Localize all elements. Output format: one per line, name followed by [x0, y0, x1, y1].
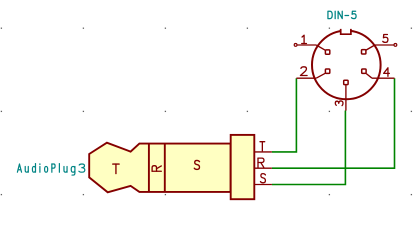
label S inside sleeve section	[194, 160, 199, 169]
DIN pin 5	[362, 44, 397, 55]
DIN pin 1 number	[302, 35, 307, 43]
pin S name	[260, 174, 265, 183]
connector AudioPlug3 tip and barrel outline	[89, 143, 230, 193]
grid dots (decorative)	[1, 28, 412, 196]
pin R name	[258, 158, 264, 167]
reference label AudioPlug3	[17, 164, 75, 175]
DIN pin 1	[294, 44, 330, 55]
DIN pin 3	[344, 80, 348, 110]
DIN pin 2	[296, 69, 329, 78]
pin R stub	[254, 167, 272, 169]
pin T name	[260, 142, 265, 151]
pin T stub	[254, 151, 272, 153]
DIN pin 4 number	[384, 68, 390, 77]
DIN pin 5 number	[383, 35, 388, 43]
wire R pin to DIN pin 4	[272, 78, 395, 168]
pin S stub	[254, 184, 272, 186]
reference label AudioPlug3 digit 3	[79, 164, 85, 172]
label R inside ring section (rotated)	[152, 166, 161, 172]
wire T pin to DIN pin 2	[272, 78, 297, 152]
connector DIN-5 outline circle	[312, 31, 381, 100]
DIN pin 2 number	[300, 67, 307, 76]
wire S pin to DIN pin 3	[272, 111, 346, 185]
audio plug R/S separator	[164, 144, 166, 192]
DIN pin 4	[362, 69, 395, 78]
label T inside tip	[113, 164, 119, 174]
value label DIN-5	[328, 11, 356, 18]
DIN-5 key notch	[341, 27, 351, 34]
DIN pin 3 number (rotated)	[335, 101, 343, 106]
audio plug T/R separator	[148, 144, 150, 192]
audio plug connector body rectangle	[231, 135, 255, 199]
